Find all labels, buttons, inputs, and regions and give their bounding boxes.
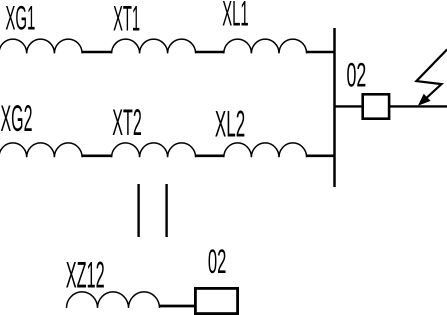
wire — [82, 51, 112, 54]
svg-text:02: 02 — [208, 243, 227, 281]
breaker 02 box — [363, 94, 389, 118]
inductor XT1 — [112, 39, 196, 53]
parallel bar 1 — [137, 184, 139, 237]
wire — [307, 155, 336, 158]
svg-text:XL2: XL2 — [215, 102, 245, 144]
wire — [82, 155, 112, 158]
bus node — [333, 28, 336, 187]
inductor XL2 — [224, 143, 307, 157]
wire — [196, 155, 225, 158]
svg-text:02: 02 — [347, 57, 367, 95]
inductor XL1 — [224, 39, 307, 53]
inductor XZ12 — [67, 292, 160, 308]
inductor XG1 — [0, 39, 82, 53]
svg-text:XZ12: XZ12 — [66, 254, 105, 296]
svg-text:XT1: XT1 — [113, 0, 140, 39]
svg-text:XG1: XG1 — [5, 0, 35, 38]
svg-text:XG2: XG2 — [1, 98, 33, 139]
svg-text:XT2: XT2 — [112, 101, 142, 143]
wire — [307, 51, 336, 54]
wire — [335, 105, 362, 107]
wire — [390, 105, 447, 107]
fault lightning symbol — [416, 50, 447, 103]
svg-text:XL1: XL1 — [222, 0, 249, 34]
inductor XG2 — [0, 143, 82, 157]
equivalent box 02 — [195, 288, 237, 313]
parallel bar 2 — [165, 184, 167, 237]
fault arrowhead — [419, 95, 430, 105]
inductor XT2 — [112, 143, 196, 157]
wire — [196, 51, 225, 54]
wire — [160, 305, 196, 308]
